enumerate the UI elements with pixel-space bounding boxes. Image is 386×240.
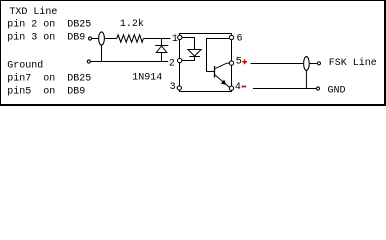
terminal TXD input xyxy=(88,37,91,40)
feed-through bead on FSK line xyxy=(304,57,310,71)
svg-text:pin 2 on DB25: pin 2 on DB25 xyxy=(7,19,91,31)
svg-text:TXD Line: TXD Line xyxy=(9,6,57,18)
optocoupler U1 body xyxy=(180,34,232,92)
wire pin 4 to GND terminal xyxy=(253,88,316,90)
wire bead to resistor R1 xyxy=(104,38,116,40)
svg-text:1N914: 1N914 xyxy=(132,72,162,83)
wire ground rail to node B (diode bottom junction) and pin 2 of U1 xyxy=(91,61,169,63)
feed-through bead on TXD line xyxy=(99,32,105,45)
svg-text:4: 4 xyxy=(235,82,241,93)
terminal FSK Line output xyxy=(317,62,320,65)
pin 4 of U1 xyxy=(229,86,233,90)
transistor Q1 (phototransistor of U1) base bar xyxy=(214,66,216,78)
wire FSK bead to terminal xyxy=(309,63,317,65)
svg-text:1.2k: 1.2k xyxy=(120,18,144,30)
pin 1 of U1 xyxy=(178,35,182,39)
pin 5 of U1 xyxy=(229,61,233,65)
resistor R1 1.2k zigzag xyxy=(117,35,144,42)
wire TXD terminal to bead xyxy=(92,38,99,40)
pin 2 of U1 xyxy=(177,58,181,62)
terminal GND output xyxy=(316,87,319,90)
terminal Ground input xyxy=(87,60,90,63)
net label Ground: "Ground / pin7 on DB25 / pin5 on DB9" xyxy=(7,60,91,98)
wire bead drop to ground rail xyxy=(101,45,103,62)
diode D1 1N914 (cathode up) xyxy=(155,39,168,62)
net label TXD: "TXD Line / pin 2 on DB25 / pin 3 on DB9" xyxy=(7,6,91,44)
pin 3 of U1 xyxy=(177,86,181,90)
polarity mark - (red) on GND line xyxy=(242,86,247,88)
wire pin 5 to FSK bead xyxy=(251,63,304,65)
transistor Q1 collector to pin 5 xyxy=(215,63,230,69)
svg-text:FSK Line: FSK Line xyxy=(329,57,377,69)
svg-text:pin 3 on DB9: pin 3 on DB9 xyxy=(7,32,85,44)
pin 6 of U1 xyxy=(229,35,233,39)
svg-text:3: 3 xyxy=(170,82,176,93)
svg-text:GND: GND xyxy=(328,85,346,96)
transistor Q1 emitter to pin 4 with arrow xyxy=(215,75,230,87)
wire resistor R1 to node A (diode top junction) and pin 1 of U1 xyxy=(143,38,170,40)
wire FSK bead drop to GND rail xyxy=(305,70,307,88)
svg-text:6: 6 xyxy=(237,33,243,44)
svg-text:pin7 on DB25: pin7 on DB25 xyxy=(7,73,91,85)
svg-text:pin5 on DB9: pin5 on DB9 xyxy=(7,86,85,98)
U1 internal LED (anode pin 1, cathode pin 2) xyxy=(182,38,201,61)
svg-text:5: 5 xyxy=(236,57,242,68)
U1 internal base wire from pin 6 xyxy=(207,39,230,72)
svg-text:2: 2 xyxy=(169,58,175,69)
polarity mark + (red) on FSK line xyxy=(242,59,247,64)
svg-text:Ground: Ground xyxy=(7,60,43,72)
svg-text:1: 1 xyxy=(172,34,178,45)
